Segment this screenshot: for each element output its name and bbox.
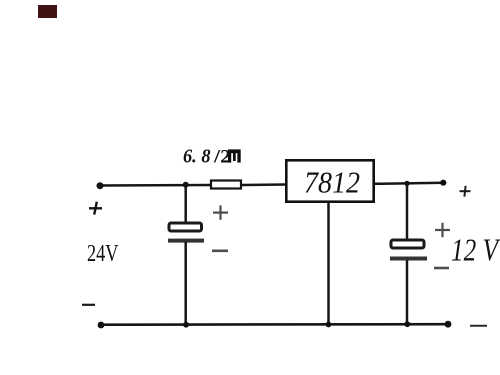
label plus C2 — [435, 223, 450, 237]
svg-text:24V: 24V — [87, 241, 119, 267]
node input terminal dot — [97, 182, 104, 189]
svg-text:12 V: 12 V — [451, 232, 500, 268]
wire top rail left (node to resistor) — [100, 184, 211, 187]
capacitor C2 bottom plate — [390, 257, 427, 261]
label W glyph — [228, 149, 241, 162]
svg-text:6. 8: 6. 8 — [183, 147, 211, 168]
wire resistor to regulator — [242, 183, 286, 186]
capacitor C1 top plate — [169, 223, 202, 231]
node bottom junction regulator — [326, 322, 332, 328]
node bottom left terminal — [98, 322, 105, 329]
wire left vertical to capacitor C1 — [184, 184, 187, 222]
wire right vertical to capacitor C2 — [406, 183, 409, 239]
node output terminal dot — [440, 180, 446, 186]
wire C2 to bottom rail — [406, 260, 409, 325]
node bottom junction C2 — [404, 321, 410, 327]
label plus output — [460, 186, 471, 197]
capacitor C2 top plate — [391, 240, 424, 248]
label minus input — [82, 304, 95, 306]
node junction right (cap tap) — [404, 181, 409, 186]
scan artifact red rectangle — [38, 5, 57, 18]
label minus output — [470, 325, 487, 327]
wire regulator to output node — [375, 183, 444, 184]
wire regulator ground vertical — [327, 202, 330, 325]
node bottom right terminal — [445, 321, 452, 328]
regulator U1 7812 box — [286, 160, 373, 201]
node bottom junction C1 — [183, 322, 189, 328]
label minus C1 — [212, 250, 228, 253]
node junction left (resistor/cap) — [183, 182, 189, 188]
wire bottom rail — [101, 323, 448, 326]
svg-text:7812: 7812 — [304, 165, 360, 200]
label plus C1 — [213, 205, 228, 219]
capacitor C1 bottom plate — [168, 239, 204, 243]
label minus C2 — [434, 267, 449, 270]
label plus input — [89, 202, 102, 215]
wire C1 to bottom rail — [184, 242, 187, 325]
resistor R1 — [211, 181, 241, 189]
